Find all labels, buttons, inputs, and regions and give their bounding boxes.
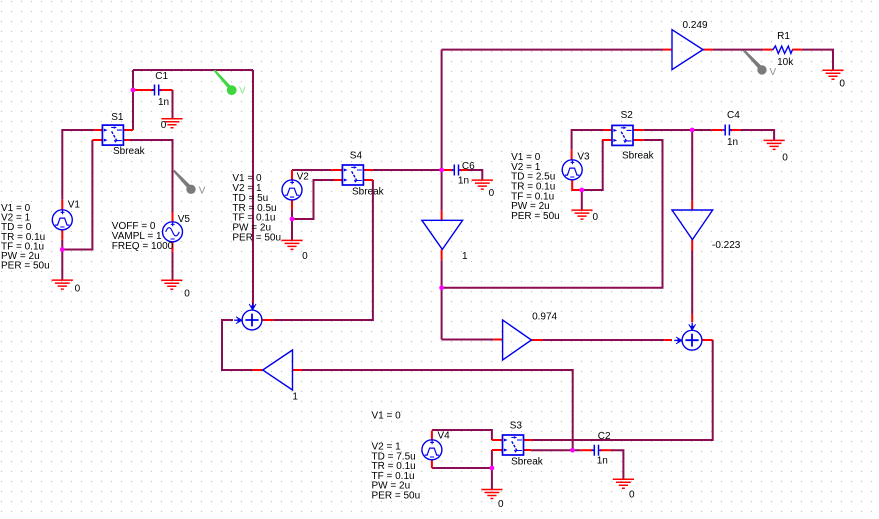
pin V1 plus lead: [61, 200, 63, 210]
gain block 0.974: [503, 311, 558, 360]
svg-text:Sbreak: Sbreak: [352, 186, 385, 197]
value labels V3 parameters: [511, 152, 560, 222]
value labels V4 parameters: [372, 410, 421, 501]
svg-text:S3: S3: [510, 420, 523, 431]
svg-text:C4: C4: [727, 110, 740, 121]
wire V3 node to ground: [581, 190, 583, 210]
resistor R1: [773, 31, 795, 68]
switch S4 Sbreak: [342, 151, 384, 198]
wire C2 right lead to ground: [611, 450, 623, 479]
svg-text:V5: V5: [178, 214, 191, 225]
capacitor C1: [152, 71, 169, 108]
svg-text:V4: V4: [438, 430, 451, 441]
wire vertical from gain 0.249 feed down to C6 node: [441, 50, 443, 170]
pin gain 0.249 output lead: [703, 49, 713, 51]
pin S2 lower-right lead: [633, 139, 643, 141]
wire buffer U1 output down to gain stage: [441, 260, 443, 339]
svg-text:1: 1: [292, 391, 298, 402]
ground 0 at V4: [481, 490, 504, 511]
svg-text:R1: R1: [777, 31, 790, 42]
wire gain 0.974 output to summer U6: [543, 339, 665, 341]
wire C4 right lead to ground: [740, 130, 774, 140]
pin summer U6 left input lead: [664, 339, 672, 341]
wire gain 0.249 output to R1: [713, 49, 764, 51]
wire S4 lower-right down and left to summer U5 output: [273, 180, 373, 320]
ground 0 at C4: [764, 140, 789, 163]
voltage source V4 VPULSE: [422, 430, 450, 460]
pin S4 upper-left lead: [331, 169, 342, 171]
wire S4 upper-right to C6 node: [372, 169, 441, 171]
svg-text:V3: V3: [577, 152, 590, 163]
junction V4 minus node: [490, 466, 495, 471]
switch S3 Sbreak: [503, 420, 544, 467]
svg-text:PER = 50u: PER = 50u: [511, 211, 560, 222]
capacitor C4: [723, 110, 740, 148]
wire long vertical feeder to summer U5 top: [252, 70, 254, 301]
wire S4 lower-left to V2 minus node: [292, 180, 334, 219]
probe V gray on V5 wire: [173, 170, 206, 197]
wire C1 right lead down to ground stem: [172, 90, 174, 119]
svg-text:V: V: [239, 86, 246, 97]
voltage source V3 VPULSE: [562, 152, 590, 180]
pin S4 upper-right lead: [363, 169, 373, 171]
svg-text:Sbreak: Sbreak: [113, 146, 146, 157]
pin V3 plus lead: [571, 150, 573, 160]
pin C6 left lead: [444, 169, 453, 171]
pin V4 minus lead: [431, 460, 433, 468]
svg-text:V: V: [199, 186, 206, 197]
value labels V1 parameters: [1, 203, 50, 271]
wire V4 node to ground: [491, 468, 493, 490]
junction C6 node: [439, 168, 444, 173]
svg-text:1n: 1n: [727, 137, 738, 148]
pin S3 upper-left lead: [492, 439, 503, 441]
pin V2 minus lead: [291, 200, 293, 210]
pin C6 right lead: [460, 169, 467, 171]
pin S4 lower-left lead: [334, 179, 342, 181]
wire S1 upper-left to V1 plus: [62, 130, 94, 200]
ground 0 at V3: [571, 210, 598, 223]
pin V3 minus lead: [572, 180, 580, 190]
pin S2 upper-right lead: [633, 129, 643, 131]
pin summer U6 top input lead: [691, 314, 693, 322]
svg-text:0: 0: [629, 489, 635, 500]
ground 0 at V5: [161, 280, 190, 299]
svg-text:PER = 50u: PER = 50u: [232, 232, 281, 243]
pin gain -0.223 output lead: [691, 240, 693, 251]
pin S2 upper-left lead: [604, 129, 613, 131]
wire C6 right lead to ground: [468, 170, 483, 180]
ground 0 at C2: [613, 479, 635, 500]
svg-text:0: 0: [839, 78, 845, 89]
wire V1 minus to node: [61, 240, 63, 250]
wire summer U5 left input from gain 1 output: [222, 320, 253, 370]
pin gain 1 input lead: [293, 369, 303, 371]
wire gain 1 input from C2 node: [302, 370, 573, 450]
ground 0 at V1: [52, 280, 81, 294]
pin S4 lower-right lead: [363, 179, 373, 181]
probe V gray on R1 wire: [743, 50, 777, 78]
svg-text:FREQ = 1000: FREQ = 1000: [112, 241, 174, 252]
pin buffer U1 input lead: [441, 211, 443, 221]
value labels V5 parameters: [112, 221, 174, 252]
summer U5: [234, 302, 262, 330]
wire feeder to gain 0.249 input: [442, 49, 663, 51]
svg-text:1n: 1n: [597, 455, 608, 466]
junction C2 node: [570, 448, 575, 453]
wire V1 node to ground: [61, 250, 63, 281]
svg-text:PER = 50u: PER = 50u: [1, 260, 50, 271]
pin gain 0.249 input lead: [663, 49, 672, 51]
wire S4 upper-left to V2 plus: [292, 169, 331, 171]
pin C2 left lead: [580, 449, 592, 451]
pin gain 0.974 output lead: [531, 339, 542, 341]
svg-text:S1: S1: [111, 112, 124, 123]
pin C4 left lead: [712, 129, 723, 131]
gain block 1 (left): [263, 350, 299, 402]
wire C1 node down to S1 pin: [132, 90, 134, 130]
capacitor C6: [452, 161, 475, 186]
wire top rail from C1 node to vertical feeder: [133, 69, 253, 71]
pin summer U6 output lead: [702, 339, 713, 341]
pin V1 minus lead: [61, 230, 63, 240]
junction C1 node: [131, 88, 136, 93]
junction node B: [439, 285, 444, 290]
wire gain -0.223 output to summer U6 top: [691, 251, 693, 315]
pin C4 right lead: [730, 129, 740, 131]
junction V1 minus node: [60, 247, 65, 252]
svg-text:-0.223: -0.223: [712, 240, 741, 251]
switch S1 Sbreak: [102, 112, 145, 157]
svg-text:V1: V1: [68, 199, 81, 210]
pin S1 upper-right lead: [123, 129, 133, 131]
gain block buffer 1 (down): [422, 220, 468, 262]
ground 0 at V2: [281, 240, 308, 261]
ground 0 at R1: [822, 70, 845, 89]
wire summer U6 output down left to S3 upper-right: [531, 340, 713, 440]
capacitor C2: [592, 431, 611, 466]
wire V2 node to ground: [291, 219, 293, 240]
svg-text:1n: 1n: [158, 97, 169, 108]
pin buffer U1 output lead: [441, 249, 443, 260]
pin summer U5 top input lead: [252, 301, 254, 309]
svg-text:V1 = 0: V1 = 0: [372, 410, 402, 421]
svg-text:0.249: 0.249: [683, 20, 708, 31]
pin S3 lower-right lead: [523, 449, 531, 451]
voltage source V2 VPULSE: [282, 171, 309, 200]
wire S3 lower-left to V4 minus node: [432, 450, 492, 468]
svg-text:1: 1: [462, 251, 468, 262]
svg-text:Sbreak: Sbreak: [622, 151, 655, 162]
svg-text:C6: C6: [462, 161, 475, 172]
svg-text:0: 0: [593, 212, 599, 223]
pin C2 right lead: [600, 449, 611, 451]
wire C1 node up to top rail: [132, 70, 134, 90]
svg-text:V2: V2: [297, 171, 310, 182]
wire S1 lower-right to V5 plus: [129, 140, 172, 212]
pin R1 right lead: [792, 49, 802, 51]
svg-text:0: 0: [161, 120, 167, 131]
pin V2 plus lead: [291, 170, 293, 180]
pin S1 upper-left lead: [94, 129, 102, 131]
svg-text:Sbreak: Sbreak: [511, 456, 544, 467]
pin summer U5 output lead: [262, 319, 273, 321]
pin gain -0.223 input lead: [691, 201, 693, 210]
pin S3 upper-right lead: [523, 439, 531, 441]
wire S3 lower-right to C2 node: [531, 449, 580, 451]
wire S2 lower-right loop to node B: [442, 140, 663, 288]
svg-text:C1: C1: [155, 71, 168, 82]
pin S3 lower-left lead: [492, 449, 503, 451]
svg-text:C2: C2: [598, 431, 611, 442]
junction V3 minus node: [579, 188, 584, 193]
pin S1 lower-right lead: [123, 139, 129, 141]
wire C6 node down to buffer U1 input: [441, 170, 443, 211]
svg-text:0: 0: [782, 152, 788, 163]
svg-text:0: 0: [75, 283, 81, 294]
ground 0 at C1: [161, 119, 183, 131]
wire S2 upper-right to C4: [643, 129, 711, 131]
wire S1 lower-left to V1 minus node: [62, 140, 92, 250]
wire V3 minus node to S2 lower-left: [572, 140, 603, 190]
pin S1 lower-left lead: [92, 139, 102, 141]
wire summer U5 output stub: [273, 319, 373, 321]
wire V4 plus to S3 upper-left: [432, 430, 492, 440]
svg-text:V: V: [770, 67, 777, 78]
svg-text:S2: S2: [621, 110, 634, 121]
svg-text:0: 0: [302, 251, 308, 262]
wire V2 minus to node: [291, 210, 293, 219]
svg-text:0.974: 0.974: [532, 311, 557, 322]
wire buffer U1 output to gain 0.974 input: [442, 339, 494, 341]
wire V5 minus to ground: [172, 252, 174, 280]
pin V4 plus lead: [431, 431, 433, 440]
pin C1 left lead: [135, 89, 155, 91]
svg-text:S4: S4: [350, 151, 363, 162]
svg-text:10k: 10k: [777, 57, 794, 68]
pin S2 lower-left lead: [602, 139, 612, 141]
wire C4 node down to gain -0.223 input: [691, 130, 693, 201]
pin R1 left lead: [763, 49, 773, 51]
pin gain 0.974 input lead: [494, 339, 503, 341]
probe V green on top rail: [213, 70, 246, 97]
junction C4 node: [690, 128, 695, 133]
gain block 0.249: [672, 20, 708, 70]
svg-text:PER = 50u: PER = 50u: [372, 491, 421, 502]
pin V5 plus lead: [172, 212, 174, 222]
wire R1 right to ground: [802, 50, 833, 71]
switch S2 Sbreak: [612, 110, 655, 162]
voltage source V1 VPULSE: [52, 199, 80, 229]
svg-text:0: 0: [498, 499, 504, 510]
value labels V2 parameters: [232, 173, 281, 243]
junction V2 minus node: [290, 217, 295, 222]
gain block -0.223 (down): [672, 210, 741, 251]
pin C1 right lead: [160, 89, 172, 91]
svg-text:1n: 1n: [458, 176, 469, 187]
pin V5 minus lead: [172, 242, 174, 252]
svg-text:0: 0: [184, 289, 190, 300]
svg-text:0: 0: [489, 188, 495, 199]
summer U6: [674, 322, 702, 350]
pin gain 1 output lead: [253, 369, 263, 371]
ground 0 at C6: [472, 180, 495, 199]
voltage source V5 VSIN: [163, 214, 191, 242]
wire S2 upper-left to V3 plus: [572, 130, 604, 150]
